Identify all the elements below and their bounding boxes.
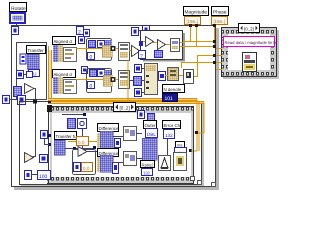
tan node A2 — [168, 68, 179, 81]
wire const right — [89, 141, 100, 142]
svg-text:Aligned d: Aligned d — [54, 39, 73, 44]
corner notch while loop — [198, 181, 202, 185]
orange const 10.0 — [77, 137, 89, 146]
wire aligned1 to loop1 — [76, 48, 84, 49]
case internal wires — [143, 41, 183, 47]
corner notch outer — [212, 183, 216, 187]
right frame selector — [239, 24, 260, 33]
triangle A in case — [146, 37, 154, 47]
sequence selector — [114, 103, 136, 112]
comparison triangle left — [25, 84, 35, 94]
svg-text:Ratio2: Ratio2 — [142, 163, 155, 168]
write file icon — [243, 53, 257, 72]
svg-text:0: 0 — [90, 55, 93, 61]
blue terminal N dithered — [14, 87, 22, 97]
wire purple to const — [68, 141, 76, 142]
blue glyph node seq — [78, 119, 87, 129]
while loop shadow — [21, 104, 204, 186]
blue box right of build — [159, 72, 166, 81]
orange h wire y41 — [183, 41, 214, 42]
i terminal loop2 — [88, 82, 95, 90]
wire y62 from A2 top — [181, 62, 214, 68]
label N denote — [163, 85, 185, 93]
long 2D array wire W1 — [48, 98, 197, 101]
triangle node 1 — [132, 46, 141, 57]
svg-text:Rotate: Rotate — [11, 6, 26, 12]
const 100 — [38, 171, 51, 181]
blue box ratio2 — [142, 169, 153, 176]
svg-text:?: ? — [140, 54, 143, 60]
terminal transfer data purple — [27, 54, 39, 69]
blue box ms — [175, 148, 187, 157]
wires blue col to build node — [141, 68, 145, 93]
svg-text:Phase: Phase — [213, 10, 227, 16]
junction dots on outer top — [189, 24, 216, 27]
blue box error — [164, 130, 175, 139]
wires difference nodes — [113, 133, 142, 163]
wire magnitude2 down — [196, 24, 197, 46]
outer structure shadow — [14, 28, 219, 190]
blue box before loop2 — [82, 67, 88, 74]
svg-text:Read data / magnitude lin b: Read data / magnitude lin b — [225, 40, 277, 45]
tunnel Rotate on outer border — [12, 27, 19, 35]
indexing tunnel loop1 — [111, 46, 116, 51]
svg-text:[0..2]: [0..2] — [244, 27, 254, 32]
triangle bottom left — [25, 153, 34, 163]
indicator Phase — [212, 17, 228, 25]
blue box in case — [155, 51, 163, 58]
wire triangle down to while border — [33, 88, 36, 157]
tan box loop1 — [102, 45, 112, 57]
svg-text:0: 0 — [90, 84, 93, 90]
label Aligned d row1 — [53, 37, 76, 45]
wire node1 to triangle1 — [129, 50, 132, 51]
seq left tunnel — [41, 131, 52, 147]
label Transfer fu — [55, 132, 78, 140]
blue box before loop1 — [79, 37, 85, 44]
svg-text:101: 101 — [165, 96, 174, 102]
purple transfer fu box — [54, 140, 65, 155]
purple box loop2 — [104, 70, 111, 78]
i terminal small loop — [74, 163, 81, 172]
blue box loop1 — [98, 41, 105, 48]
inner frame around transfer cluster — [17, 43, 47, 100]
aligned icon row1 — [53, 45, 77, 62]
wire magnitude down — [190, 24, 191, 41]
W2 vertical — [204, 102, 205, 133]
label Rotate — [10, 3, 27, 13]
terminal outside left — [3, 96, 10, 104]
node in case right — [171, 39, 180, 52]
terminal Rotate I32 — [10, 13, 25, 23]
W1 vertical down right side — [197, 99, 200, 151]
tunnel right of selector — [138, 111, 145, 119]
tunnel on while loop corner — [18, 96, 26, 105]
orange vertical from case area — [128, 60, 129, 103]
wire phase down — [214, 24, 215, 48]
orange vertical wire band from transfer area — [48, 46, 52, 103]
right frame shadow — [223, 30, 279, 79]
wire between tunnels — [138, 30, 143, 31]
blue terminal m — [17, 71, 24, 79]
wire into loop — [9, 99, 18, 100]
tunnel pair above case — [132, 28, 139, 36]
for loop 1 — [87, 39, 112, 61]
svg-text:[DBL]: [DBL] — [187, 19, 199, 24]
wire through loop2 — [84, 79, 103, 80]
blue vert box 1 — [115, 139, 121, 148]
svg-text:Error Ch: Error Ch — [164, 123, 181, 128]
blue box outside seq left — [40, 155, 48, 163]
W2 return — [195, 131, 204, 134]
metronome node — [159, 156, 171, 171]
numeric box under purple — [29, 70, 40, 77]
label Difference 2 — [98, 149, 119, 157]
svg-text:0.0: 0.0 — [78, 140, 85, 145]
subvi node 2 — [124, 152, 137, 166]
svg-text:N denote: N denote — [164, 87, 182, 92]
array node 1 — [119, 43, 130, 61]
wire A2 to B2 — [179, 75, 183, 76]
svg-text:Transfer fu: Transfer fu — [56, 134, 78, 139]
blue dithered node seq — [68, 119, 76, 129]
svg-text:0.0: 0.0 — [83, 166, 90, 171]
tunnel dots right border — [213, 40, 216, 64]
svg-text:DBL: DBL — [147, 132, 156, 137]
white node B2 — [184, 70, 194, 84]
small blue box right of m — [27, 72, 33, 78]
string constant pink — [224, 37, 277, 47]
blue column box c — [135, 89, 142, 97]
sequence structure bottom — [47, 105, 194, 184]
purple box loop1 — [105, 40, 112, 48]
stop node — [174, 153, 187, 171]
right sequence frame — [222, 28, 277, 77]
wire aligned2 to loop2 — [76, 79, 84, 80]
label Outer — [144, 121, 157, 129]
for loop 2 — [87, 69, 112, 93]
wire node2 right — [129, 80, 134, 81]
wire nodeB2 up out — [194, 55, 214, 77]
label Aligned d row2 — [53, 70, 76, 78]
orange h wire y46 — [183, 46, 214, 47]
frame input stubs — [216, 48, 222, 70]
DBL box outer — [146, 129, 158, 138]
svg-text:Outer: Outer — [145, 123, 157, 128]
label Magnitude — [184, 7, 209, 16]
svg-text:132: 132 — [165, 133, 173, 138]
svg-text:Transfer d: Transfer d — [28, 48, 48, 53]
case structure shadow — [143, 33, 185, 62]
blue column box a — [135, 65, 142, 73]
purple difference2 — [97, 155, 113, 172]
corner notch sequence — [191, 177, 195, 181]
long 2D array wire W2 — [51, 101, 204, 104]
tunnel pair above case 2 — [143, 26, 150, 34]
wire triangleB right — [87, 151, 100, 152]
wire loop2 to node2 — [115, 79, 118, 80]
purple difference1 — [97, 131, 113, 153]
tan box loop2 — [103, 75, 112, 86]
case structure — [141, 31, 183, 60]
blue vert box 2 — [113, 163, 119, 174]
wire Rotate to tunnel — [16, 23, 17, 27]
N terminal loop2 — [90, 70, 97, 77]
while loop — [20, 102, 202, 185]
label Phase — [212, 7, 229, 16]
big purple box — [142, 138, 157, 160]
indicator Magnitude — [185, 17, 201, 25]
wire into seq nodes — [62, 113, 86, 150]
wire through loop1 — [84, 48, 102, 49]
wire blue box to A2 — [165, 75, 168, 76]
iteration terminal bottom — [25, 171, 32, 180]
svg-text:2: 2 — [78, 30, 81, 36]
indexing tunnel loop2 — [111, 77, 116, 82]
array node 2 — [119, 71, 130, 89]
aligned icon row2 — [53, 77, 77, 94]
svg-text:132: 132 — [143, 171, 151, 176]
svg-text:Difference: Difference — [99, 126, 119, 131]
svg-text:[DBL]: [DBL] — [214, 19, 226, 24]
orange const in small loop — [82, 163, 93, 172]
label Error Che — [163, 121, 181, 129]
tunnel dots on while top — [33, 100, 52, 104]
triangle B in small loop — [78, 147, 87, 157]
blue dithered box in seq top — [148, 114, 155, 121]
blue column box b — [134, 77, 142, 86]
outer case structure — [12, 26, 216, 187]
svg-text:Magnitude: Magnitude — [185, 10, 208, 16]
svg-text:100: 100 — [39, 174, 48, 180]
case tunnel left — [139, 41, 143, 46]
tunnel 2 on outer top border — [77, 27, 84, 36]
wire to const 100 — [31, 174, 37, 175]
svg-text:Aligned d: Aligned d — [54, 72, 73, 77]
blue tunnel above loop1 — [84, 30, 90, 37]
slider icon — [20, 54, 26, 64]
enum N denote — [163, 94, 178, 103]
label Transfer d — [27, 46, 48, 54]
svg-text:[0..2]: [0..2] — [120, 106, 130, 111]
W1 return into sequence — [189, 149, 197, 152]
svg-text:ms: ms — [177, 143, 182, 148]
build array tall node — [145, 64, 158, 95]
N terminal loop1 — [89, 41, 96, 48]
triangle B in case — [158, 40, 166, 50]
label Difference 1 — [98, 124, 119, 132]
wire loop1 to node1 — [115, 48, 118, 49]
i terminal loop1 — [88, 53, 95, 61]
small for loop in seq — [73, 150, 96, 175]
label ms — [176, 142, 185, 148]
label Ratio2 — [141, 161, 155, 168]
blue box loop2 — [98, 70, 105, 77]
case selector — [139, 51, 146, 60]
wire m to small box — [24, 74, 27, 75]
subvi node 1 — [124, 127, 137, 141]
